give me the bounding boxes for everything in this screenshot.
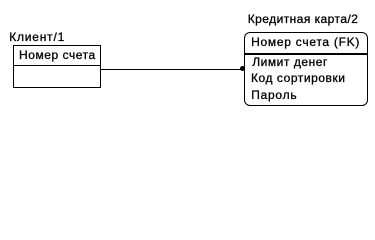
entity Клиент/1 name label bbox=[9, 31, 65, 43]
cardinality dot bbox=[240, 66, 245, 71]
attribute Номер счета (FK) bbox=[251, 36, 360, 48]
attribute Номер счета (Клиент primary key) bbox=[19, 49, 96, 61]
entity Кредитная карта/2 box bbox=[244, 32, 368, 106]
entity Кредитная карта/2 name label bbox=[248, 13, 359, 25]
attribute Лимит денег bbox=[252, 56, 328, 68]
relationship wire bbox=[101, 69, 242, 70]
entity Клиент/1 box bbox=[13, 45, 101, 88]
attribute Код сортировки bbox=[251, 72, 346, 84]
attribute Пароль bbox=[251, 89, 297, 101]
entity Кредитная карта/2 key compartment separator bbox=[245, 53, 368, 54]
entity Клиент/1 key compartment separator bbox=[13, 65, 100, 66]
